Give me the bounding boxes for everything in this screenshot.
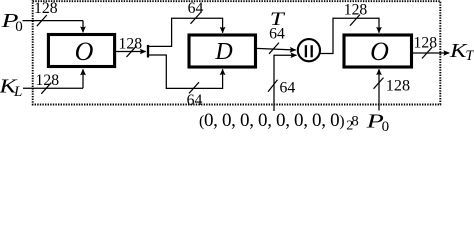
wire concat circle to box O2 top [321,18,380,53]
dotted enclosure border [33,1,441,104]
splitter bar [147,45,149,58]
label KL bottom-left [0,75,22,100]
wire lower 64 route splitter to D bottom [148,55,223,88]
box D (derivation function, middle) [189,35,256,67]
concat circle || [298,39,320,61]
svg-text:L: L [13,84,22,100]
slash tick 64 lower [189,82,199,93]
wire P0 to box O2 bottom [378,69,380,110]
svg-text:64: 64 [188,0,204,17]
slash tick 128 on KT wire [422,47,432,58]
box O1 (orientation function, left) [48,35,114,67]
wire P0 to box O1 top [23,20,84,22]
wire D output T to concat circle [256,48,296,50]
label zero vector (0,0,...,0) base 2^8 [199,110,359,133]
svg-text:0: 0 [15,19,23,35]
label KT output [449,40,474,64]
svg-text:128: 128 [119,35,143,52]
slash tick 64 upper [191,13,201,24]
box O2 (orientation function, right) [344,35,412,67]
svg-text:D: D [214,39,232,65]
slash tick 128 on bottom P0 wire [374,78,384,89]
wire box O2 output to KT [413,52,449,54]
slash tick 128 on O1 output [127,46,137,57]
svg-text:128: 128 [414,34,438,51]
label P0 top-left [0,10,23,35]
svg-text:128: 128 [36,72,60,89]
svg-text:8: 8 [351,113,359,129]
svg-text:0: 0 [382,119,390,132]
svg-text:128: 128 [344,2,368,19]
svg-text:O: O [370,37,389,66]
svg-text:64: 64 [187,92,203,109]
wire upper 64 route splitter to D top [148,18,223,46]
label P0 bottom [365,110,389,135]
wire KL to box O1 bottom [23,87,83,89]
svg-text:(0, 0, 0, 0, 0, 0, 0, 0): (0, 0, 0, 0, 0, 0, 0, 0) [199,110,344,131]
svg-text:64: 64 [269,26,285,43]
svg-text:T: T [465,48,474,64]
slash tick 128 on P0 wire [37,15,47,26]
svg-text:64: 64 [280,79,296,96]
svg-text:128: 128 [34,0,58,17]
slash tick 128 on circle-to-O2 wire [350,15,360,26]
slash tick 128 on KL wire [41,83,51,94]
svg-text:O: O [75,37,94,66]
svg-text:128: 128 [386,76,410,94]
wire zero-vector to concat circle [274,55,297,111]
wire box O1 output to splitter [116,51,146,53]
slash tick 64 on zero wire [268,80,278,92]
slash tick 64 on T wire [269,43,279,54]
